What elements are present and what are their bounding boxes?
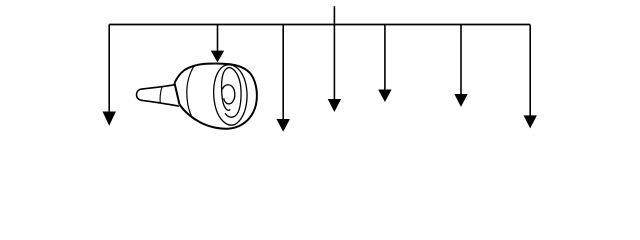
leader line 4	[333, 25, 335, 101]
arrow 7	[524, 115, 537, 128]
leader line 3	[282, 25, 284, 121]
leader line 2	[217, 25, 219, 52]
stem top edge	[140, 85, 174, 89]
top stub at node	[333, 6, 335, 24]
leader line 7	[529, 25, 531, 117]
leader line 6	[460, 25, 462, 96]
arrow 1	[103, 112, 116, 126]
arrow 2	[211, 51, 224, 63]
stem bottom edge	[141, 100, 179, 106]
arrow 3	[277, 119, 290, 132]
header horizontal line	[109, 24, 530, 26]
stem cross line	[160, 87, 162, 103]
leader line 1	[108, 25, 110, 113]
bulb body outline	[175, 63, 257, 128]
face ellipse	[214, 65, 247, 126]
arrow 5	[378, 90, 391, 103]
stem rounded cap	[137, 89, 141, 100]
leader line 5	[384, 25, 386, 91]
arrow 4	[328, 99, 341, 112]
arrow 6	[454, 94, 467, 107]
filament spiral inner hook	[222, 85, 235, 104]
bulb neck band line	[187, 66, 194, 116]
filament spiral outer turn	[222, 68, 241, 118]
bulb neck left edge	[175, 83, 180, 105]
